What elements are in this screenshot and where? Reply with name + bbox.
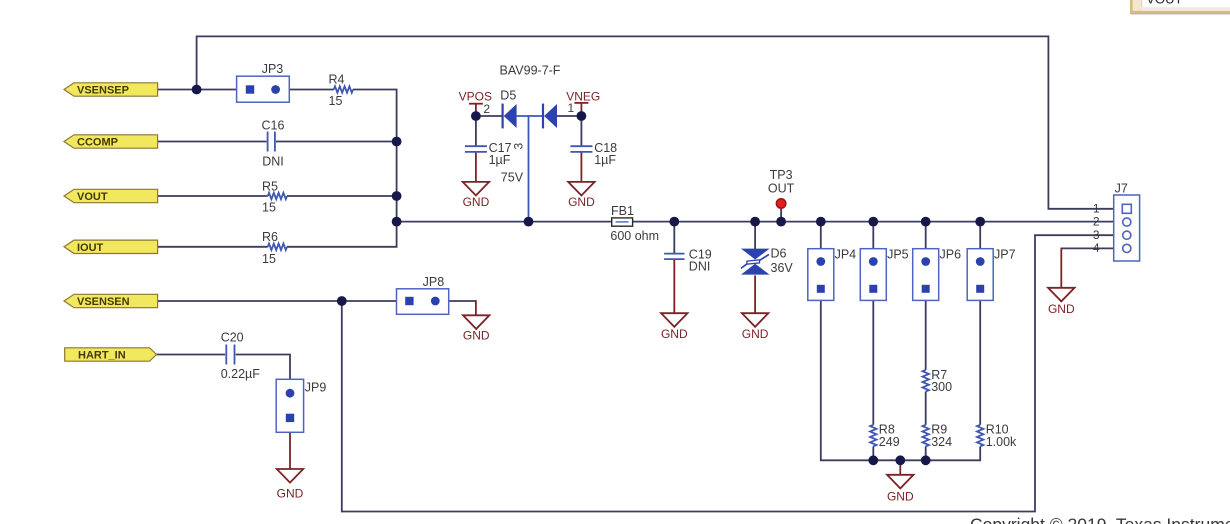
ground (568, 182, 595, 209)
svg-text:VOUT: VOUT (1146, 0, 1182, 6)
wire: JP3 circle pin to R4 (280, 89, 334, 91)
wire: R9 to bottom rail (925, 446, 927, 460)
junction node at (781.1,221.6) (776, 217, 786, 227)
wire: C16 to vertical bus (276, 141, 397, 143)
resistor R4 (329, 73, 353, 108)
wire: bottom rail GND stub (899, 460, 901, 475)
node HART_IN net label (65, 348, 157, 362)
junction node at (873.3,221.6) (868, 217, 878, 227)
wire: VNEG stub (580, 103, 582, 117)
wire: J7 pin 4 to GND corner (1061, 247, 1122, 249)
svg-text:DNI: DNI (689, 260, 711, 274)
svg-text:D6: D6 (771, 247, 787, 261)
power VNEG (566, 89, 600, 103)
jumper JP9 (276, 379, 326, 432)
pin 1 (1122, 204, 1131, 213)
resistor R8 (870, 423, 900, 449)
diode D6 (bidirectional TVS) (741, 247, 794, 275)
jumper JP7 (967, 247, 1015, 300)
junction node at (900.3,460.3) (895, 455, 905, 465)
ferrite bead FB1 (610, 204, 659, 243)
connector J7 (1093, 181, 1140, 261)
resistor R10 (977, 423, 1017, 449)
diode D5 (BAV99-7-F dual) (483, 63, 574, 149)
svg-text:15: 15 (329, 94, 343, 108)
jumper JP8 (397, 275, 449, 315)
wire: bus down to JP7 (979, 222, 981, 258)
svg-text:BAV99-7-F: BAV99-7-F (500, 63, 561, 77)
svg-text:OUT: OUT (768, 182, 795, 196)
pin 3 (1123, 231, 1131, 239)
svg-text:JP3: JP3 (262, 62, 284, 76)
wire: VPOS junction to D5 cathode (476, 115, 502, 117)
wire: bus down to D6 (754, 222, 756, 249)
jumper JP3 (237, 62, 290, 102)
svg-text:1µF: 1µF (489, 153, 511, 167)
wire: C17 to GND (475, 153, 477, 184)
svg-text:JP6: JP6 (940, 247, 962, 261)
resistor R5 (262, 179, 287, 214)
svg-text:GND: GND (463, 328, 490, 342)
capacitor C17 (465, 141, 524, 184)
svg-text:1: 1 (1093, 201, 1100, 215)
svg-text:1.00k: 1.00k (986, 435, 1017, 449)
junction node at (396.6,221.6) (392, 217, 402, 227)
svg-text:1µF: 1µF (594, 153, 616, 167)
svg-text:4: 4 (1093, 241, 1100, 255)
wire: R8 to bottom rail (872, 446, 874, 460)
wire: R5 to vertical bus (287, 195, 397, 197)
wire: IOUT label to R6 (158, 246, 268, 248)
svg-text:C16: C16 (262, 119, 285, 133)
wire: JP6 down to R7 (925, 293, 927, 370)
svg-text:2: 2 (483, 102, 490, 116)
junction node at (674.3,221.6) (669, 217, 679, 227)
capacitor C20 (221, 331, 261, 381)
svg-text:GND: GND (568, 195, 595, 209)
wire: C20 to JP9 circle pin (236, 355, 290, 390)
svg-text:GND: GND (463, 195, 490, 209)
svg-text:VNEG: VNEG (566, 89, 600, 103)
svg-text:GND: GND (887, 490, 914, 504)
power VPOS (459, 90, 492, 104)
svg-text:VPOS: VPOS (459, 90, 492, 104)
wire: JP8 circle pin to GND corner (440, 300, 476, 302)
ground (661, 313, 688, 341)
wire: JP9 square pin through rect bottom (289, 422, 291, 433)
svg-text:FB1: FB1 (611, 204, 634, 218)
svg-text:DNI: DNI (262, 155, 284, 169)
node VSENSEN net label (64, 294, 158, 308)
svg-text:VOUT: VOUT (77, 191, 108, 203)
svg-text:324: 324 (931, 435, 952, 449)
svg-text:JP5: JP5 (887, 247, 909, 261)
pin 4 (1123, 244, 1131, 252)
svg-text:600 ohm: 600 ohm (610, 229, 659, 243)
wire: TP3 stub to bus (780, 208, 782, 222)
wire: C19 to GND (673, 260, 675, 315)
ground (742, 313, 769, 341)
svg-text:300: 300 (931, 380, 952, 394)
node CCOMP net label (64, 135, 158, 149)
junction node at (396.6,141.5) (392, 137, 402, 147)
ground (463, 182, 490, 209)
wire: R6 right, vertical bus x=396.6, to R4 right (287, 90, 397, 247)
svg-text:36V: 36V (771, 261, 794, 275)
wire: R7 to R9 (925, 392, 927, 425)
wire: VNEG junction down to C18 (580, 116, 582, 146)
wire: D6 to GND (754, 275, 756, 314)
svg-text:CCOMP: CCOMP (77, 137, 118, 149)
svg-text:IOUT: IOUT (77, 242, 104, 254)
svg-text:JP7: JP7 (994, 247, 1016, 261)
junction node at (820.8,221.6) (816, 217, 826, 227)
jumper JP4 (808, 247, 856, 300)
wire: bus down to JP4 (820, 222, 822, 258)
junction node at (396.6,196) (392, 191, 402, 201)
wire: JP5 down to R8 (872, 293, 874, 425)
junction node at (341.8,301) (337, 296, 347, 306)
wire: JP9 GND stub (289, 432, 291, 469)
svg-text:JP4: JP4 (835, 247, 857, 261)
svg-text:249: 249 (879, 435, 900, 449)
svg-text:GND: GND (1048, 302, 1075, 316)
wire: JP8 GND stub (475, 300, 477, 315)
svg-text:J7: J7 (1115, 181, 1128, 195)
wire: VPOS junction down to C17 (475, 116, 477, 146)
wire: bus down to JP6 (925, 222, 927, 258)
svg-text:C20: C20 (221, 331, 244, 345)
pin 2 (1123, 218, 1131, 226)
wire: VOUT label to R5 (158, 195, 268, 197)
wire: D5 right diode to VNEG junction (557, 115, 581, 117)
svg-text:R5: R5 (262, 179, 278, 193)
wire: top bus from VSENSEP junction to J7 pin 1 (197, 36, 1122, 208)
ground (463, 315, 490, 342)
node VOUT net label (64, 189, 158, 203)
wire: main horizontal bus to FB1 (397, 221, 612, 223)
wire: D5 common node between diodes (517, 115, 543, 117)
junction node at (925.7,221.6) (921, 217, 931, 227)
junction node at (873.3,460.3) (868, 455, 878, 465)
svg-text:TP3: TP3 (770, 168, 793, 182)
junction node at (196.6,89.5) (192, 85, 202, 95)
junction node at (581.4,116) (577, 111, 587, 121)
ground (887, 475, 914, 504)
wire: VSENSEN label to JP8 square pin (158, 300, 406, 302)
capacitor C18 (570, 141, 617, 167)
svg-text:3: 3 (512, 143, 526, 150)
capacitor C16 (262, 119, 285, 169)
junction node at (755.1,221.6) (750, 217, 760, 227)
svg-text:D5: D5 (500, 88, 516, 102)
wire: JP7 down to R10 (979, 293, 981, 425)
wire: bus down to JP5 (872, 222, 874, 258)
wire: VSENSEN down, along bottom, up to J7 pin 3 (342, 235, 1123, 511)
wire: D5 pin 3 net down to bus (528, 116, 530, 222)
svg-text:15: 15 (262, 252, 276, 266)
svg-text:GND: GND (277, 486, 304, 500)
ground (277, 469, 304, 500)
resistor R9 (923, 423, 953, 449)
jumper JP5 (860, 247, 908, 300)
jumper JP6 (913, 247, 961, 300)
wire: FB1 to J7 pin 2 (633, 221, 1123, 223)
junction node at (980.2,221.6) (975, 217, 985, 227)
wire: J7 pin 4 GND stub (1060, 248, 1062, 288)
svg-text:VSENSEP: VSENSEP (77, 85, 129, 97)
capacitor C19 (664, 247, 712, 273)
resistor R6 (262, 230, 287, 266)
svg-text:JP9: JP9 (305, 380, 327, 394)
svg-text:VSENSEN: VSENSEN (77, 296, 130, 308)
svg-text:15: 15 (262, 201, 276, 215)
wire: JP4 down, bottom rail, up to R10 (821, 293, 980, 461)
wire: VPOS stub (475, 104, 477, 117)
junction node at (528.5,221.6) (524, 217, 534, 227)
node IOUT net label (64, 240, 158, 254)
resistor R7 (923, 368, 953, 394)
svg-text:HART_IN: HART_IN (78, 350, 126, 362)
svg-text:3: 3 (1093, 228, 1100, 242)
svg-text:0.22µF: 0.22µF (221, 367, 261, 381)
svg-text:Copyright © 2019, Texas Instru: Copyright © 2019, Texas Instrumen (970, 515, 1230, 524)
wire: bus down to C19 (673, 222, 675, 253)
junction node at (475.9,116) (471, 111, 481, 121)
test point TP3 (768, 168, 795, 208)
wire: HART_IN label to C20 (157, 354, 226, 356)
tooltip box VOUT (top right, clipped) (1130, 0, 1230, 14)
svg-text:R4: R4 (329, 73, 345, 87)
node VSENSEP net label (64, 83, 158, 97)
ground (1048, 288, 1075, 316)
wire: VSENSEP label to JP3 square pin (158, 89, 246, 91)
svg-text:JP8: JP8 (423, 275, 445, 289)
svg-text:GND: GND (742, 327, 769, 341)
junction node at (925.7,460.3) (921, 455, 931, 465)
svg-text:75V: 75V (501, 171, 524, 185)
wire: C18 to GND (580, 153, 582, 184)
svg-text:GND: GND (661, 327, 688, 341)
svg-text:2: 2 (1093, 215, 1100, 229)
wire: CCOMP label to C16 (158, 141, 267, 143)
svg-text:R6: R6 (262, 230, 278, 244)
